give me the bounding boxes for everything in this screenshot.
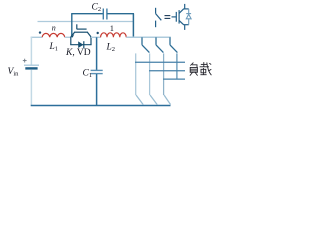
- wire: L2 to inverter top rail: [126, 36, 171, 38]
- battery Vin minus plate: [25, 67, 37, 69]
- inverter mid vertical 1: [135, 53, 137, 95]
- inverter mid vertical 2: [149, 53, 151, 95]
- phase line A: [135, 61, 185, 63]
- svg-text:1: 1: [110, 23, 114, 33]
- battery Vin plus plate: [24, 64, 39, 66]
- legend switch symbol: [156, 8, 162, 27]
- diode VD loop: [70, 37, 91, 48]
- phase line C: [163, 78, 185, 80]
- label C1: [83, 69, 93, 80]
- inverter mid vertical 4: [176, 53, 178, 79]
- svg-text:L1: L1: [49, 42, 59, 53]
- label Vin: [8, 67, 20, 78]
- wire: upper light link from input node to node B: [38, 21, 134, 23]
- inverter mid vertical 3: [163, 53, 165, 95]
- label K, VD: [65, 48, 91, 58]
- plus sign: [23, 59, 27, 63]
- wire: C2 riser from switch node up: [71, 14, 73, 38]
- legend IGBT: [172, 4, 189, 30]
- capacitor C1 branch wire lower: [96, 74, 98, 106]
- polarity dot L1: [39, 31, 41, 33]
- label 1: [110, 23, 114, 33]
- legend IGBT antiparallel diode: [186, 9, 191, 25]
- polarity dot L2: [97, 32, 99, 34]
- wire: source left vertical lower: [30, 70, 32, 106]
- wire: bottom rail: [31, 105, 171, 107]
- label L1: [49, 42, 59, 53]
- wire: C2 top right segment: [107, 13, 134, 15]
- capacitor C1 branch wire upper: [96, 37, 98, 70]
- wire: L1 to switch: [65, 36, 72, 38]
- inductor L2: [101, 33, 127, 37]
- inverter lower switch blades: [136, 95, 171, 105]
- svg-text:n: n: [52, 24, 56, 33]
- phase line B: [149, 70, 185, 72]
- wire: C2 top left segment: [71, 13, 103, 15]
- label C2: [92, 3, 102, 14]
- wire: C2 drop to node B: [132, 14, 134, 38]
- label load (hanzi 负载): [190, 63, 198, 76]
- inverter upper switch blades: [142, 45, 177, 53]
- wire: switch to L2 node: [91, 36, 101, 38]
- inductor L1: [42, 33, 64, 37]
- svg-text:C2: C2: [92, 3, 102, 14]
- transistor K: [71, 24, 91, 37]
- svg-text:K, VD: K, VD: [65, 48, 91, 58]
- wire: input top segment: [31, 36, 43, 38]
- capacitor C1: [91, 70, 103, 73]
- label n: [52, 24, 56, 33]
- svg-text:L2: L2: [106, 43, 116, 54]
- capacitor C2: [103, 9, 107, 20]
- equals sign: [165, 16, 171, 19]
- wire: source left vertical upper: [30, 37, 32, 65]
- svg-text:Vin: Vin: [8, 67, 20, 78]
- inverter leg top stubs: [142, 37, 170, 45]
- label L2: [106, 43, 116, 54]
